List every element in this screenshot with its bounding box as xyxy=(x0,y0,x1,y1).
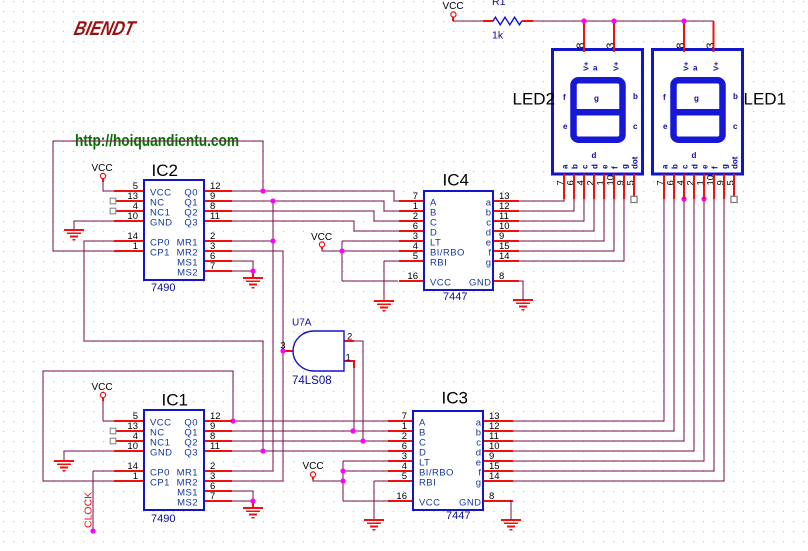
svg-text:10: 10 xyxy=(127,211,138,222)
svg-text:e: e xyxy=(663,122,668,131)
svg-text:c: c xyxy=(733,122,738,131)
svg-text:RBI: RBI xyxy=(419,478,436,489)
svg-text:b: b xyxy=(733,92,738,101)
svg-text:f: f xyxy=(663,93,666,102)
svg-text:VCC: VCC xyxy=(430,278,451,289)
svg-text:V+: V+ xyxy=(712,61,721,71)
svg-text:7490: 7490 xyxy=(151,513,175,525)
svg-text:f: f xyxy=(563,93,566,102)
svg-text:a: a xyxy=(593,64,598,73)
svg-text:RBI: RBI xyxy=(430,258,447,269)
svg-text:GND: GND xyxy=(150,448,172,459)
svg-text:CP1: CP1 xyxy=(150,478,170,489)
svg-text:MS2: MS2 xyxy=(177,498,198,509)
svg-text:e: e xyxy=(601,164,610,169)
svg-text:1k: 1k xyxy=(492,30,504,42)
svg-text:7447: 7447 xyxy=(446,510,470,522)
svg-text:1: 1 xyxy=(133,471,138,482)
svg-text:c: c xyxy=(681,164,690,169)
svg-text:e: e xyxy=(563,122,568,131)
svg-text:g: g xyxy=(721,164,730,169)
svg-text:IC3: IC3 xyxy=(442,389,468,408)
svg-text:g: g xyxy=(621,164,630,169)
svg-text:c: c xyxy=(633,122,638,131)
svg-text:VCC: VCC xyxy=(419,498,440,509)
svg-text:14: 14 xyxy=(499,251,510,262)
svg-text:b: b xyxy=(633,92,638,101)
svg-text:GND: GND xyxy=(469,278,491,289)
svg-text:dot: dot xyxy=(731,156,740,169)
svg-text:d: d xyxy=(691,164,700,169)
svg-text:V+: V+ xyxy=(612,61,621,71)
svg-text:BIENDT: BIENDT xyxy=(72,18,139,40)
svg-text:11: 11 xyxy=(210,211,220,222)
svg-text:10: 10 xyxy=(127,441,138,452)
svg-text:e: e xyxy=(701,164,710,169)
svg-text:GND: GND xyxy=(459,498,481,509)
svg-text:5: 5 xyxy=(402,471,407,482)
svg-text:IC1: IC1 xyxy=(162,391,188,410)
svg-text:MS2: MS2 xyxy=(177,268,198,279)
svg-text:b: b xyxy=(571,164,580,169)
svg-text:LED2: LED2 xyxy=(513,90,556,109)
svg-text:VCC: VCC xyxy=(302,461,323,472)
svg-text:V+: V+ xyxy=(682,61,691,71)
svg-text:5: 5 xyxy=(726,180,737,185)
svg-text:d: d xyxy=(591,164,600,169)
svg-text:GND: GND xyxy=(150,218,172,229)
svg-text:c: c xyxy=(581,164,590,169)
svg-text:a: a xyxy=(561,164,570,169)
svg-text:CLOCK: CLOCK xyxy=(83,492,95,528)
svg-text:IC4: IC4 xyxy=(443,171,469,190)
svg-text:8: 8 xyxy=(489,491,494,502)
svg-text:74LS08: 74LS08 xyxy=(292,375,332,387)
svg-text:14: 14 xyxy=(489,471,500,482)
svg-text:8: 8 xyxy=(575,43,587,49)
svg-text:g: g xyxy=(486,258,492,269)
svg-text:a: a xyxy=(693,64,698,73)
svg-text:16: 16 xyxy=(407,271,418,282)
svg-text:d: d xyxy=(592,151,597,160)
svg-text:3: 3 xyxy=(605,43,617,49)
svg-text:f: f xyxy=(611,166,620,169)
svg-text:7: 7 xyxy=(210,261,215,272)
svg-text:7447: 7447 xyxy=(443,291,467,303)
svg-text:VCC: VCC xyxy=(442,1,463,12)
svg-text:7: 7 xyxy=(210,491,215,502)
svg-text:g: g xyxy=(694,94,699,103)
svg-text:a: a xyxy=(661,164,670,169)
svg-text:1: 1 xyxy=(133,241,138,252)
svg-text:R1: R1 xyxy=(492,0,506,8)
svg-text:U7A: U7A xyxy=(292,318,312,329)
svg-text:2: 2 xyxy=(347,332,352,343)
svg-text:VCC: VCC xyxy=(91,382,112,393)
svg-text:g: g xyxy=(476,478,482,489)
svg-text:3: 3 xyxy=(280,341,285,352)
svg-text:d: d xyxy=(692,151,697,160)
svg-text:CP1: CP1 xyxy=(150,248,170,259)
svg-text:dot: dot xyxy=(631,156,640,169)
svg-text:8: 8 xyxy=(499,271,504,282)
svg-text:V+: V+ xyxy=(582,61,591,71)
svg-text:VCC: VCC xyxy=(91,163,112,174)
svg-text:Q3: Q3 xyxy=(184,448,198,459)
svg-text:16: 16 xyxy=(396,491,407,502)
svg-text:g: g xyxy=(594,94,599,103)
svg-text:7490: 7490 xyxy=(151,282,175,294)
svg-text:Q3: Q3 xyxy=(184,218,198,229)
svg-text:1: 1 xyxy=(346,353,351,364)
svg-text:5: 5 xyxy=(413,251,418,262)
svg-text:f: f xyxy=(711,166,720,169)
svg-text:b: b xyxy=(671,164,680,169)
svg-text:3: 3 xyxy=(705,43,717,49)
svg-text:5: 5 xyxy=(626,180,637,185)
svg-text:LED1: LED1 xyxy=(744,90,787,109)
svg-text:11: 11 xyxy=(210,441,220,452)
svg-text:IC2: IC2 xyxy=(152,161,178,180)
svg-text:8: 8 xyxy=(675,43,687,49)
